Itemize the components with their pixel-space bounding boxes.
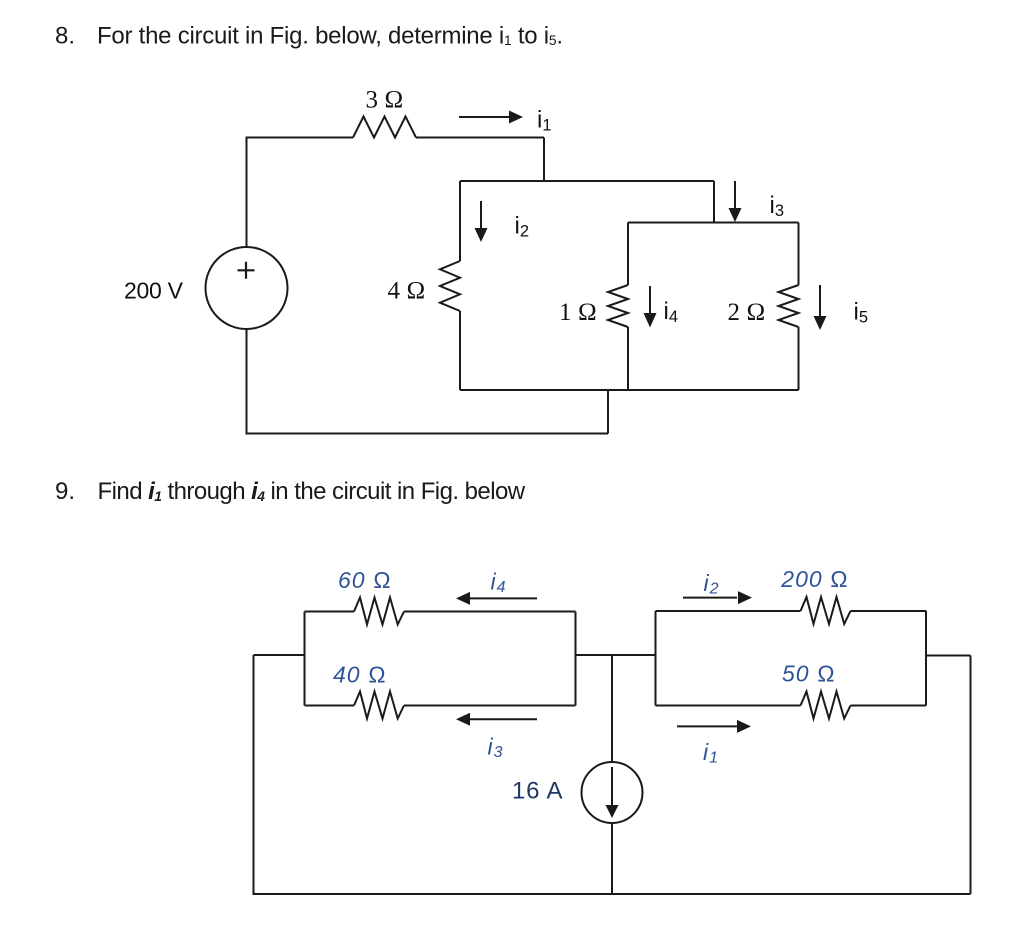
resistor 60 Ohm <box>354 598 404 625</box>
wire: left box bottom edge right part <box>404 705 576 707</box>
wire: middle box top edge <box>460 180 714 182</box>
wire: outer right edge <box>970 656 972 895</box>
svg-text:2 Ω: 2 Ω <box>728 299 766 326</box>
svg-text:9.: 9. <box>55 478 75 505</box>
wire: left box top edge left part <box>305 611 355 613</box>
current arrow i1 (problem 9) <box>677 720 751 733</box>
wire: right box top edge left part <box>656 610 801 612</box>
wire: right connector <box>926 655 971 657</box>
wire: left box right edge <box>575 612 577 706</box>
svg-text:i2: i2 <box>704 570 720 598</box>
wire: middle box left edge upper <box>459 181 461 261</box>
wire: right box bottom edge right part <box>851 705 927 707</box>
wire: inner box top edge <box>628 222 799 224</box>
wire: source top up and across to 3-ohm resistor <box>247 138 354 248</box>
wire: middle box left edge lower <box>459 311 461 390</box>
wire: 1-ohm branch upper <box>627 223 629 286</box>
svg-text:50 Ω: 50 Ω <box>782 661 836 687</box>
wire: current source upper lead <box>611 655 613 762</box>
wire: left box top edge right part <box>404 611 576 613</box>
resistor 200 Ohm <box>801 597 851 624</box>
current arrow i2 <box>475 201 488 242</box>
svg-text:i3: i3 <box>770 192 785 220</box>
wire: shared bottom edge of boxes <box>460 389 799 391</box>
current arrow i4 (problem 9) <box>456 592 537 605</box>
svg-text:i4: i4 <box>664 298 679 326</box>
svg-text:i3: i3 <box>488 734 504 762</box>
svg-text:3 Ω: 3 Ω <box>366 87 404 114</box>
resistor 1 Ohm <box>608 285 628 327</box>
current source 16 A <box>582 762 643 823</box>
svg-text:Find i1 through i4 in the circ: Find i1 through i4 in the circuit in Fig… <box>98 478 526 505</box>
svg-text:i5: i5 <box>854 299 869 327</box>
wire: node A down to middle box top <box>543 138 545 182</box>
svg-text:i1: i1 <box>537 107 552 135</box>
wire: middle box right edge <box>713 181 715 223</box>
svg-text:40 Ω: 40 Ω <box>333 662 387 688</box>
svg-text:i1: i1 <box>703 739 719 767</box>
wire: jog down from box bottom <box>607 390 609 434</box>
svg-text:200 V: 200 V <box>124 278 184 304</box>
svg-text:200 Ω: 200 Ω <box>780 566 848 592</box>
wire: 1-ohm branch lower <box>627 327 629 390</box>
resistor 40 Ohm <box>354 692 404 719</box>
svg-text:i2: i2 <box>515 213 530 241</box>
current arrow i3 (problem 9) <box>456 713 537 726</box>
current arrow i2 (problem 9) <box>683 591 752 604</box>
current arrow i3 <box>729 181 742 222</box>
wire: middle connector between boxes <box>576 654 656 656</box>
current arrow i5 <box>814 285 827 330</box>
wire: outer left edge and bottom edge <box>254 655 971 894</box>
voltage source 200 V <box>206 247 288 329</box>
wire: left box bottom edge left part <box>305 705 355 707</box>
svg-text:1 Ω: 1 Ω <box>559 299 597 326</box>
wire: 3-ohm resistor to node A <box>416 137 544 139</box>
svg-text:16 A: 16 A <box>512 778 563 805</box>
wire: right box left edge <box>655 611 657 706</box>
wire: current source lower lead <box>611 823 613 894</box>
svg-text:i4: i4 <box>491 569 507 597</box>
svg-text:4 Ω: 4 Ω <box>388 278 426 305</box>
current arrow i1 <box>459 111 523 124</box>
wire: bottom return to source <box>247 329 609 434</box>
resistor 2 Ohm <box>779 285 799 327</box>
wire: 2-ohm branch upper <box>798 223 800 286</box>
wire: right box top edge right part <box>851 610 927 612</box>
svg-text:60 Ω: 60 Ω <box>338 567 392 593</box>
wire: outer left connector <box>254 654 305 656</box>
wire: right box right edge <box>925 611 927 706</box>
svg-text:For the circuit in Fig. below,: For the circuit in Fig. below, determine… <box>97 23 563 50</box>
current arrow i4 <box>644 286 657 328</box>
wire: left box left edge <box>304 612 306 706</box>
resistor 50 Ohm <box>801 692 851 719</box>
wire: 2-ohm branch lower <box>798 327 800 390</box>
svg-text:8.: 8. <box>55 23 75 50</box>
resistor 3 Ohm <box>353 117 416 138</box>
wire: right box bottom edge left part <box>656 705 801 707</box>
resistor 4 Ohm <box>440 261 460 311</box>
